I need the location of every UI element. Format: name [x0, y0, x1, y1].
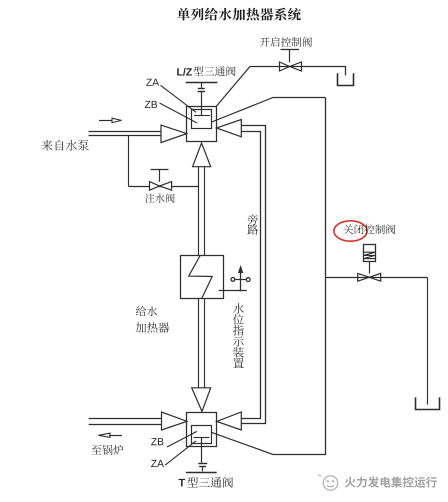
- L/Z valve top symbol: [186, 82, 218, 84]
- arrow into L/Z valve bottom: [193, 143, 211, 167]
- flow arrow to boiler: [98, 433, 110, 437]
- pipe heater to T valve left line: [198, 299, 200, 388]
- bypass pipe outer line: [241, 126, 265, 424]
- label ZB bottom: [151, 438, 163, 445]
- valve stem 注水阀: [151, 169, 169, 171]
- level indicator crossbar: [235, 279, 247, 281]
- heater box: [181, 256, 224, 299]
- valve bowtie 开启控制阀: [280, 62, 290, 71]
- T valve inner bar: [194, 437, 210, 439]
- leader ZB top: [160, 103, 198, 123]
- pipe heater to T valve right line: [204, 299, 206, 388]
- main right drop line: [325, 98, 327, 456]
- level tap line: [219, 290, 247, 292]
- heater zigzag: [189, 255, 213, 298]
- red ellipse highlight: [334, 221, 367, 241]
- fill branch horizontal pipe: [128, 186, 198, 188]
- L/Z valve inner box: [192, 110, 212, 129]
- drain funnel bottom right: [416, 397, 440, 409]
- label 来自水泵: [42, 140, 89, 151]
- level indicator arrow: [239, 267, 243, 273]
- sense line from L/Z inner box: [212, 98, 326, 123]
- actuator spring: [364, 252, 376, 258]
- leader ZB bottom: [167, 431, 197, 447]
- label ZA top: [146, 79, 159, 86]
- title 单列给水加热器系统: [177, 8, 301, 21]
- drain line from T valve inner box: [212, 432, 326, 454]
- level indicator left circle: [231, 278, 235, 282]
- nozzle into T valve left: [162, 412, 188, 430]
- actuator box 关闭控制阀: [364, 245, 376, 262]
- logo icon: [323, 476, 337, 490]
- label 开启控制阀: [260, 37, 312, 47]
- nozzle into L/Z valve left: [161, 125, 187, 143]
- label 关闭控制阀: [343, 224, 395, 234]
- drain funnel top right: [338, 73, 354, 85]
- bypass pipe inner line: [241, 132, 260, 419]
- valve stem 关闭控制阀: [369, 261, 371, 273]
- level indicator right circle: [246, 278, 250, 282]
- pipe valve to heater right line: [204, 167, 206, 255]
- flow arrow from pump: [99, 120, 114, 122]
- level indicator stem: [240, 271, 242, 291]
- label 给水: [136, 306, 157, 316]
- leader ZA bottom: [165, 441, 196, 465]
- logo text 火力发电集控运行: [345, 477, 437, 488]
- T valve bottom symbol: [201, 438, 203, 463]
- drop to bottom drain: [427, 277, 429, 404]
- pipe from pump lower line: [89, 135, 162, 137]
- valve bowtie 关闭控制阀: [358, 273, 370, 281]
- label 旁路: [248, 214, 258, 225]
- arrow into T valve top: [192, 388, 211, 412]
- nozzle out of L/Z valve right: [217, 120, 242, 137]
- label L/Z型三通阀: [177, 68, 192, 76]
- T valve outer body: [187, 413, 217, 447]
- pipe valve to heater left line: [198, 167, 200, 255]
- L/Z valve outer body: [187, 107, 217, 142]
- valve stem 开启控制阀: [281, 49, 299, 51]
- label 至锅炉: [91, 445, 123, 455]
- label 加热器: [136, 322, 170, 333]
- T valve inner box: [192, 426, 212, 444]
- fill branch down pipe: [128, 136, 130, 186]
- label ZA bottom: [151, 460, 164, 467]
- pipe to boiler upper line: [89, 418, 162, 420]
- label T型三通阀: [179, 479, 185, 487]
- leader ZA top: [161, 85, 197, 112]
- label 注水阀: [145, 193, 175, 202]
- nozzle out of T valve right: [217, 412, 242, 430]
- pipe through closing valve: [326, 277, 428, 279]
- pipe to boiler lower line: [89, 424, 162, 426]
- pipe to open control valve: [216, 67, 346, 108]
- label ZB top: [145, 101, 157, 108]
- label 水位指示装置: [233, 303, 244, 314]
- L/Z valve inner bar: [194, 115, 210, 117]
- pipe from pump upper line: [89, 131, 162, 133]
- valve bowtie 注水阀: [150, 182, 160, 191]
